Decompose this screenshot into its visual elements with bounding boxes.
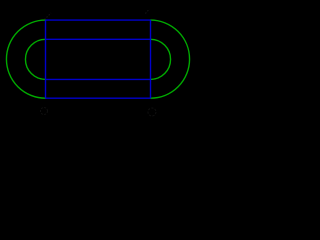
faint ring bottom-left [41, 108, 48, 115]
outer stadium right arc [151, 20, 190, 98]
inner stadium right arc [151, 39, 171, 79]
wire: left vertical chord [45, 20, 47, 98]
wire: outer top straight [46, 19, 151, 21]
faint diagonal tick top-left [45, 13, 52, 20]
wire: inner top straight [46, 38, 151, 40]
wire: inner bottom straight [46, 78, 151, 80]
inner stadium left arc [25, 39, 45, 79]
wire: right vertical chord [150, 20, 152, 98]
wire: outer bottom straight [46, 97, 151, 99]
faint diagonal tick top-right [146, 9, 150, 14]
faint ring bottom-right [148, 108, 156, 116]
outer stadium left arc [6, 20, 45, 98]
